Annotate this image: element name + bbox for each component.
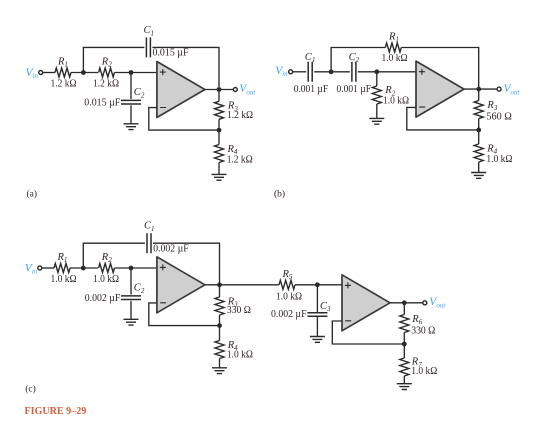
resistor R2 (c) 1.0 kohm (93, 252, 119, 285)
wire R1 to R2 with junction (c) (70, 266, 98, 271)
node Vout (c) (423, 296, 447, 309)
ground below R4 (c) (212, 368, 227, 374)
node Vout (b) (497, 83, 520, 96)
wire output node down to R3 (b) (478, 89, 480, 101)
resistor R2 (a) 1.2 kohm (93, 57, 119, 90)
ground below C2 (c) (124, 319, 139, 325)
wire R4 to ground (c) (219, 359, 221, 368)
wire output node down to R3 (c) (219, 285, 221, 297)
node Vin (c) (25, 263, 42, 276)
ground below R7 (c) (397, 384, 412, 390)
node Vin (b) (275, 65, 292, 78)
wire inverting input feedback stage 1 (c) (149, 303, 220, 326)
wire R2 to op-amp + input with junction (c) (115, 266, 157, 271)
wire C2 to op-amp + input with junction (b) (358, 69, 416, 74)
svg-text:Vout: Vout (429, 296, 446, 309)
node Vout (a) (233, 83, 256, 96)
svg-text:1.0 kΩ: 1.0 kΩ (51, 274, 77, 285)
op-amp U3 (c) (157, 257, 205, 313)
wire junction to R4 (b) (478, 130, 480, 144)
wire Vin to R1 (c) (42, 267, 54, 269)
capacitor C1 (c) 0.002 uF (144, 221, 189, 255)
svg-text:Vin: Vin (26, 67, 39, 80)
wire output node down to R3 (a) (218, 90, 220, 102)
wire junction up to C1 feedback rail (c) (83, 243, 145, 268)
wire junction down to R2 (b) (376, 72, 378, 86)
wire junction up to R1 rail (b) (331, 48, 385, 72)
resistor R3 (b) 560 ohm (474, 100, 512, 122)
svg-text:1.0 kΩ: 1.0 kΩ (383, 95, 409, 106)
svg-text:C1: C1 (305, 52, 316, 64)
wire R3 to junction (c) (217, 315, 222, 328)
svg-text:1.2 kΩ: 1.2 kΩ (227, 154, 253, 165)
svg-text:1.0 kΩ: 1.0 kΩ (276, 291, 302, 302)
svg-text:Vin: Vin (275, 65, 288, 78)
svg-text:0.001 µF: 0.001 µF (294, 84, 329, 95)
svg-text:(b): (b) (274, 189, 285, 200)
wire R3 to junction (b) (476, 119, 481, 133)
capacitor C1 (a) 0.015 uF (144, 25, 189, 58)
wire R7 to ground (c) (403, 376, 405, 384)
svg-text:0.002 µF: 0.002 µF (85, 293, 121, 304)
svg-text:(c): (c) (25, 384, 36, 395)
wire op-amp output to Vout (b) (464, 87, 497, 92)
svg-text:0.001 µF: 0.001 µF (337, 84, 372, 95)
wire junction up to C1 feedback rail (a) (83, 47, 144, 72)
wire junction down to C2 (a) (130, 73, 132, 100)
wire inverting input feedback (b) (407, 107, 479, 129)
svg-text:R1: R1 (388, 32, 399, 44)
svg-text:C3: C3 (320, 301, 331, 313)
resistor R1 (c) 1.0 kohm (51, 252, 77, 285)
svg-text:R2: R2 (101, 57, 112, 69)
ground below C3 (c) (310, 337, 325, 343)
resistor R1 (b) 1.0 kohm (382, 32, 408, 65)
svg-text:0.015 µF: 0.015 µF (84, 98, 120, 109)
svg-text:1.2 kΩ: 1.2 kΩ (93, 79, 119, 90)
resistor R1 (a) 1.2 kohm (51, 57, 77, 90)
resistor R6 (c) 330 ohm (400, 314, 436, 336)
wire junction down to C2 (c) (130, 268, 132, 295)
wire C1 to output column (a) (152, 47, 219, 87)
svg-text:0.002 µF: 0.002 µF (153, 243, 189, 254)
wire C2 to ground (c) (130, 301, 132, 319)
resistor R5 (c) 1.0 kohm (276, 269, 302, 302)
wire R4 to ground (b) (478, 162, 480, 172)
svg-text:1.2 kΩ: 1.2 kΩ (51, 79, 77, 90)
wire C1 to output column (c) (153, 243, 220, 282)
resistor R2 (b) 1.0 kohm (372, 85, 409, 106)
ground below C2 (a) (124, 124, 139, 130)
wire R6 to junction (c) (402, 333, 407, 347)
svg-text:1.0 kΩ: 1.0 kΩ (93, 274, 119, 285)
wire output node down to R6 (c) (403, 303, 405, 315)
resistor R4 (a) 1.2 kohm (215, 144, 253, 166)
capacitor C3 (c) 0.002 uF (271, 301, 331, 320)
wire C2 to ground (a) (130, 105, 132, 123)
capacitor C2 (c) 0.002 uF (85, 283, 145, 304)
svg-text:R5: R5 (282, 269, 293, 281)
svg-text:R1: R1 (57, 57, 68, 69)
op-amp U4 (c) (342, 275, 390, 331)
capacitor C2 (b) 0.001 uF (337, 52, 372, 95)
svg-text:Vout: Vout (239, 83, 256, 96)
capacitor C2 (a) 0.015 uF (84, 87, 145, 108)
resistor R7 (c) 1.0 kohm (400, 357, 438, 377)
ground below R4 (b) (471, 173, 486, 179)
wire R3 to junction (a) (217, 119, 222, 132)
wire op-amp output to Vout (a) (205, 87, 233, 92)
svg-text:330 Ω: 330 Ω (227, 305, 251, 316)
svg-text:1.0 kΩ: 1.0 kΩ (486, 154, 512, 165)
svg-text:C2: C2 (349, 52, 360, 64)
svg-text:330 Ω: 330 Ω (411, 325, 435, 336)
ground below R4 (a) (212, 174, 227, 180)
node Vin (a) (26, 67, 43, 80)
resistor R4 (c) 1.0 kohm (215, 340, 253, 361)
wire R1 to R2 with junction (a) (71, 70, 98, 75)
svg-text:(a): (a) (27, 189, 38, 200)
wire R5 to op-amp 2 + input with junction (c) (295, 282, 342, 287)
svg-text:R1: R1 (57, 252, 68, 264)
svg-text:Vin: Vin (25, 263, 38, 276)
svg-text:C1: C1 (144, 221, 155, 233)
wire Vin to C1 (b) (293, 71, 307, 73)
svg-text:1.2 kΩ: 1.2 kΩ (227, 110, 253, 121)
op-amp U2 (b) (416, 61, 464, 117)
svg-text:C2: C2 (134, 87, 145, 99)
wire C3 to ground (c) (316, 317, 318, 337)
wire op-amp 2 output to Vout (c) (390, 300, 423, 305)
svg-text:1.0 kΩ: 1.0 kΩ (411, 366, 437, 377)
svg-text:1.0 kΩ: 1.0 kΩ (382, 53, 408, 64)
svg-text:560 Ω: 560 Ω (486, 111, 512, 122)
svg-text:0.015 µF: 0.015 µF (153, 48, 189, 59)
wire R1 to output column (b) (401, 48, 478, 88)
resistor R3 (c) 330 ohm (215, 296, 251, 316)
wire inverting input feedback stage 2 (c) (332, 321, 404, 344)
wire junction to R7 (c) (403, 344, 405, 358)
svg-text:C2: C2 (134, 283, 145, 295)
wire op-amp output to R5 with junction (c) (205, 282, 279, 287)
svg-text:1.0 kΩ: 1.0 kΩ (227, 349, 253, 360)
wire Vin to R1 (a) (43, 72, 55, 74)
resistor R4 (b) 1.0 kohm (474, 143, 512, 165)
wire inverting input feedback (a) (149, 108, 219, 131)
resistor R3 (a) 1.2 kohm (215, 101, 254, 121)
wire C1 to C2 with junction (b) (314, 69, 350, 74)
capacitor C1 (b) 0.001 uF (294, 52, 329, 95)
wire R2 to op-amp + input with junction (a) (115, 70, 157, 75)
svg-text:R2: R2 (101, 252, 112, 264)
svg-text:0.002 µF: 0.002 µF (271, 309, 307, 320)
wire R4 to ground (a) (218, 163, 220, 175)
op-amp U1 (a) (157, 62, 205, 118)
svg-text:FIGURE 9–29: FIGURE 9–29 (25, 405, 87, 417)
svg-text:Vout: Vout (504, 83, 521, 96)
wire R2 to ground (b) (376, 104, 378, 118)
wire junction down to C3 (c) (316, 285, 318, 312)
wire junction to R4 (a) (218, 130, 220, 144)
ground below R2 (b) (369, 118, 384, 124)
wire junction to R4 (c) (219, 326, 221, 341)
svg-text:C1: C1 (144, 25, 155, 37)
